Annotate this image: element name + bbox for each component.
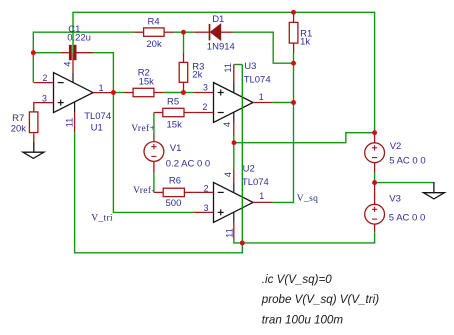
node R4-D1-R3 junction bbox=[181, 30, 186, 35]
svg-text:15k: 15k bbox=[139, 76, 155, 87]
svg-text:2: 2 bbox=[204, 184, 209, 194]
svg-text:3: 3 bbox=[203, 82, 208, 92]
svg-text:probe V(V_sq) V(V_tri): probe V(V_sq) V(V_tri) bbox=[261, 293, 379, 306]
svg-text:U3: U3 bbox=[244, 61, 256, 72]
svg-text:V_tri: V_tri bbox=[91, 214, 113, 224]
R7 ground lead bbox=[33, 142, 35, 152]
wire junction to U3 pin3 bbox=[183, 92, 193, 94]
op-amp U1 bbox=[54, 73, 94, 113]
U2 output stub bbox=[253, 201, 273, 203]
wire R5 left to V1 top bbox=[153, 113, 155, 135]
voltage source V1 bbox=[144, 142, 164, 162]
wire U2 pin11 jog bbox=[234, 239, 243, 243]
node R2-R3 junction bbox=[181, 90, 186, 95]
svg-text:2: 2 bbox=[203, 102, 208, 112]
wire U3 pin11 jog bbox=[234, 64, 243, 66]
V1 bottom lead bbox=[153, 161, 155, 172]
svg-text:V1: V1 bbox=[170, 143, 182, 154]
node C1 left junction bbox=[31, 50, 36, 55]
resistor R7 bbox=[29, 112, 38, 142]
svg-text:3: 3 bbox=[204, 203, 209, 213]
node U3 output junction bbox=[291, 100, 296, 105]
svg-text:TL074: TL074 bbox=[84, 111, 111, 122]
node V2 minus junction bbox=[372, 180, 377, 185]
svg-text:TL074: TL074 bbox=[242, 177, 269, 188]
resistor R3 bbox=[179, 53, 188, 93]
U3 pin 4 stub bbox=[233, 123, 235, 136]
wire D1 left lead green bbox=[184, 31, 194, 33]
R7 top lead bbox=[33, 103, 35, 112]
svg-text:3: 3 bbox=[42, 94, 47, 104]
U1 pin 11 stub bbox=[74, 113, 76, 133]
svg-text:V3: V3 bbox=[389, 194, 401, 205]
svg-text:4: 4 bbox=[61, 62, 72, 67]
op-amp U3 bbox=[214, 83, 254, 123]
svg-text:Vref+: Vref+ bbox=[131, 123, 155, 134]
svg-text:2: 2 bbox=[43, 73, 48, 83]
U2 pin 2 stub bbox=[194, 191, 214, 193]
svg-text:15k: 15k bbox=[167, 119, 183, 130]
wire pin4 rail to V2 plus bbox=[234, 133, 375, 143]
svg-text:1: 1 bbox=[259, 191, 264, 201]
node plus supply junction bbox=[232, 140, 237, 145]
svg-text:U2: U2 bbox=[243, 163, 255, 174]
U1 pin 4 stub bbox=[72, 54, 74, 73]
svg-text:U1: U1 bbox=[91, 122, 103, 133]
capacitor C1 bbox=[61, 45, 93, 60]
wire U3 output to rail bbox=[273, 102, 294, 104]
wire D1 to R1 bottom bbox=[233, 32, 294, 63]
U3 output stub bbox=[253, 102, 273, 104]
U1 pin 3 stub bbox=[34, 102, 54, 104]
wire U1 inverting node vertical bbox=[33, 32, 134, 82]
svg-text:1N914: 1N914 bbox=[207, 42, 235, 53]
resistor R2 bbox=[123, 88, 163, 96]
voltage source V2 bbox=[365, 143, 385, 163]
wire top +5 rail bbox=[73, 12, 375, 132]
wire R2 to R3 junction bbox=[164, 92, 184, 94]
svg-text:11: 11 bbox=[223, 228, 234, 238]
svg-text:Vref-: Vref- bbox=[133, 185, 155, 196]
svg-text:V2: V2 bbox=[390, 141, 402, 152]
svg-text:1: 1 bbox=[259, 92, 264, 102]
svg-text:R6: R6 bbox=[169, 176, 181, 187]
svg-text:4: 4 bbox=[222, 172, 233, 177]
V3 top lead bbox=[374, 183, 376, 205]
V1 top lead bbox=[153, 134, 155, 142]
op-amp U2 bbox=[214, 182, 254, 222]
svg-text:R5: R5 bbox=[167, 96, 179, 107]
ground right stub bbox=[433, 182, 435, 193]
svg-text:20k: 20k bbox=[11, 124, 27, 135]
svg-text:11: 11 bbox=[222, 63, 233, 73]
wire bottom return to U1 pin11 bbox=[75, 132, 243, 253]
U1 pin 2 stub bbox=[34, 82, 54, 84]
wire V3 minus rail bbox=[242, 232, 374, 243]
V3 bottom lead bbox=[374, 224, 376, 232]
U1 output stub bbox=[93, 92, 113, 94]
svg-text:TL074: TL074 bbox=[244, 74, 271, 85]
U3 pin 11 stub bbox=[233, 65, 235, 83]
diode D1 bbox=[194, 24, 233, 41]
svg-text:V_sq: V_sq bbox=[297, 194, 318, 204]
wire C1 left to node bbox=[33, 52, 61, 54]
wire R4 to D1 junction bbox=[174, 31, 184, 33]
resistor R5 bbox=[154, 108, 194, 116]
svg-text:R7: R7 bbox=[12, 113, 24, 124]
svg-text:5 AC 0 0: 5 AC 0 0 bbox=[389, 156, 425, 167]
svg-text:5 AC 0 0: 5 AC 0 0 bbox=[389, 213, 425, 224]
U2 pin 11 stub bbox=[233, 222, 235, 239]
svg-text:R4: R4 bbox=[148, 17, 160, 28]
wire U2 pin4 up to rail bbox=[233, 143, 235, 169]
wire V_sq vertical rail bbox=[273, 63, 294, 202]
U2 pin 4 stub bbox=[233, 169, 235, 182]
node R1 top junction bbox=[291, 10, 296, 15]
node U1 output junction bbox=[111, 90, 116, 95]
svg-text:.ic V(V_sq)=0: .ic V(V_sq)=0 bbox=[262, 273, 332, 286]
wire V1 bottom to R6 left bbox=[153, 172, 155, 192]
svg-text:4: 4 bbox=[221, 122, 232, 127]
svg-text:0.22u: 0.22u bbox=[67, 32, 91, 43]
svg-text:11: 11 bbox=[64, 118, 75, 128]
svg-text:1: 1 bbox=[99, 83, 104, 93]
wire V_tri from U1 output to U2 pin3 bbox=[113, 93, 193, 213]
node V2 plus junction bbox=[372, 130, 377, 135]
svg-text:tran 100u 100m: tran 100u 100m bbox=[262, 313, 344, 326]
U3 pin 3 stub bbox=[194, 92, 214, 94]
svg-text:1k: 1k bbox=[300, 37, 310, 48]
V2 top lead bbox=[374, 133, 376, 143]
voltage source V3 bbox=[365, 204, 385, 224]
svg-text:500: 500 bbox=[166, 198, 182, 209]
V2 bottom lead bbox=[374, 163, 376, 173]
ground right bbox=[423, 193, 444, 199]
node R1 bottom junction bbox=[291, 61, 296, 66]
wire U1 output to R2 bbox=[113, 92, 123, 94]
svg-text:2k: 2k bbox=[192, 69, 202, 80]
resistor R6 bbox=[154, 188, 194, 196]
U3 pin 2 stub bbox=[194, 112, 214, 114]
wire R1 bottom to V_sq rail bbox=[293, 53, 295, 63]
svg-text:20k: 20k bbox=[146, 39, 162, 50]
svg-text:0.2 AC 0 0: 0.2 AC 0 0 bbox=[166, 159, 210, 170]
ground left bbox=[23, 152, 44, 158]
wire R3 top lead upper bbox=[183, 32, 185, 52]
wire minus supply rail vertical bbox=[241, 65, 243, 243]
resistor R1 bbox=[289, 12, 298, 53]
resistor R4 bbox=[134, 28, 174, 36]
wire V2 minus node bbox=[375, 172, 434, 182]
wire C1 right to U1 output bbox=[93, 53, 113, 93]
svg-text:D1: D1 bbox=[212, 14, 224, 25]
node minus supply junction bbox=[240, 240, 245, 245]
U2 pin 3 stub bbox=[194, 211, 214, 213]
